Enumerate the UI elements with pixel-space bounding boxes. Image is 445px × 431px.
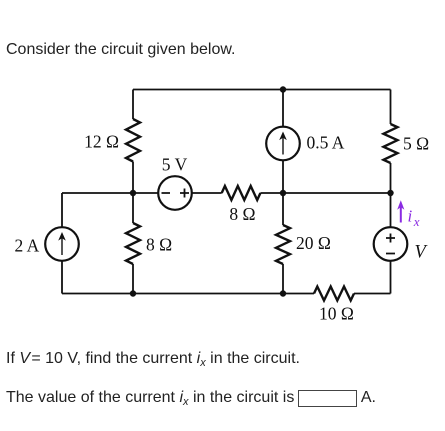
junction node E (283,293)	[280, 290, 286, 296]
current source 2A	[45, 227, 79, 261]
current source 0.5A	[266, 127, 300, 161]
wire bottom rail right segment	[354, 293, 391, 295]
wire 20-ohm top lead	[282, 193, 284, 225]
svg-text:20 Ω: 20 Ω	[296, 233, 331, 253]
resistor R 10-ohm	[314, 287, 354, 301]
svg-text:5 V: 5 V	[162, 154, 188, 174]
wire V-source top lead	[390, 193, 392, 227]
resistor R 20-ohm	[276, 225, 290, 264]
question line 1	[6, 349, 300, 368]
title text	[6, 40, 235, 59]
wire 5-ohm to middle rail	[390, 163, 392, 193]
wire 2A bottom lead	[61, 261, 63, 294]
svg-text:12 Ω: 12 Ω	[84, 132, 119, 152]
wire left outer branch 2A top lead	[61, 193, 63, 227]
resistor R 5-ohm	[384, 124, 398, 163]
voltage source 5V	[158, 176, 192, 210]
svg-text:x: x	[413, 214, 420, 229]
current arrow i_x	[400, 207, 402, 223]
junction node B (283,193)	[280, 190, 286, 196]
wire middle rail from 8-ohm to right rail	[260, 192, 390, 194]
wire 0.5A bottom lead	[282, 160, 284, 193]
svg-text:8 Ω: 8 Ω	[229, 204, 255, 224]
resistor R 8-ohm horizontal	[222, 186, 261, 200]
question line 2 with answer box	[6, 388, 376, 407]
wire left branch 12-ohm top lead	[132, 90, 134, 120]
wire 0.5A top lead	[282, 90, 284, 127]
wire V-source bottom lead	[390, 261, 392, 294]
wire top rail	[133, 89, 391, 91]
wire bottom rail left segment	[62, 293, 314, 295]
wire middle rail left segment	[62, 192, 158, 194]
svg-text:V: V	[415, 243, 429, 263]
voltage source V	[374, 227, 408, 261]
wire 12-ohm bottom lead	[132, 162, 134, 194]
resistor R 8-ohm vertical	[126, 223, 140, 264]
junction node D (133,293)	[130, 290, 136, 296]
resistor R 12-ohm	[126, 119, 140, 162]
svg-text:i: i	[408, 207, 413, 226]
svg-text:8 Ω: 8 Ω	[146, 235, 172, 255]
svg-text:10 Ω: 10 Ω	[319, 304, 354, 324]
wire 8-ohm vertical bottom lead	[132, 264, 134, 294]
wire right rail 5-ohm top lead	[390, 90, 392, 125]
svg-text:5 Ω: 5 Ω	[403, 134, 429, 154]
wire middle rail from 5V to 8-ohm	[192, 192, 222, 194]
svg-text:0.5 A: 0.5 A	[307, 132, 345, 152]
wire 8-ohm vertical top lead	[132, 193, 134, 223]
junction node A (133,193)	[130, 190, 136, 196]
junction node top (283,89)	[280, 86, 286, 92]
wire 20-ohm bottom lead	[282, 264, 284, 294]
svg-text:2 A: 2 A	[15, 236, 40, 256]
junction node C (390,193)	[387, 190, 393, 196]
